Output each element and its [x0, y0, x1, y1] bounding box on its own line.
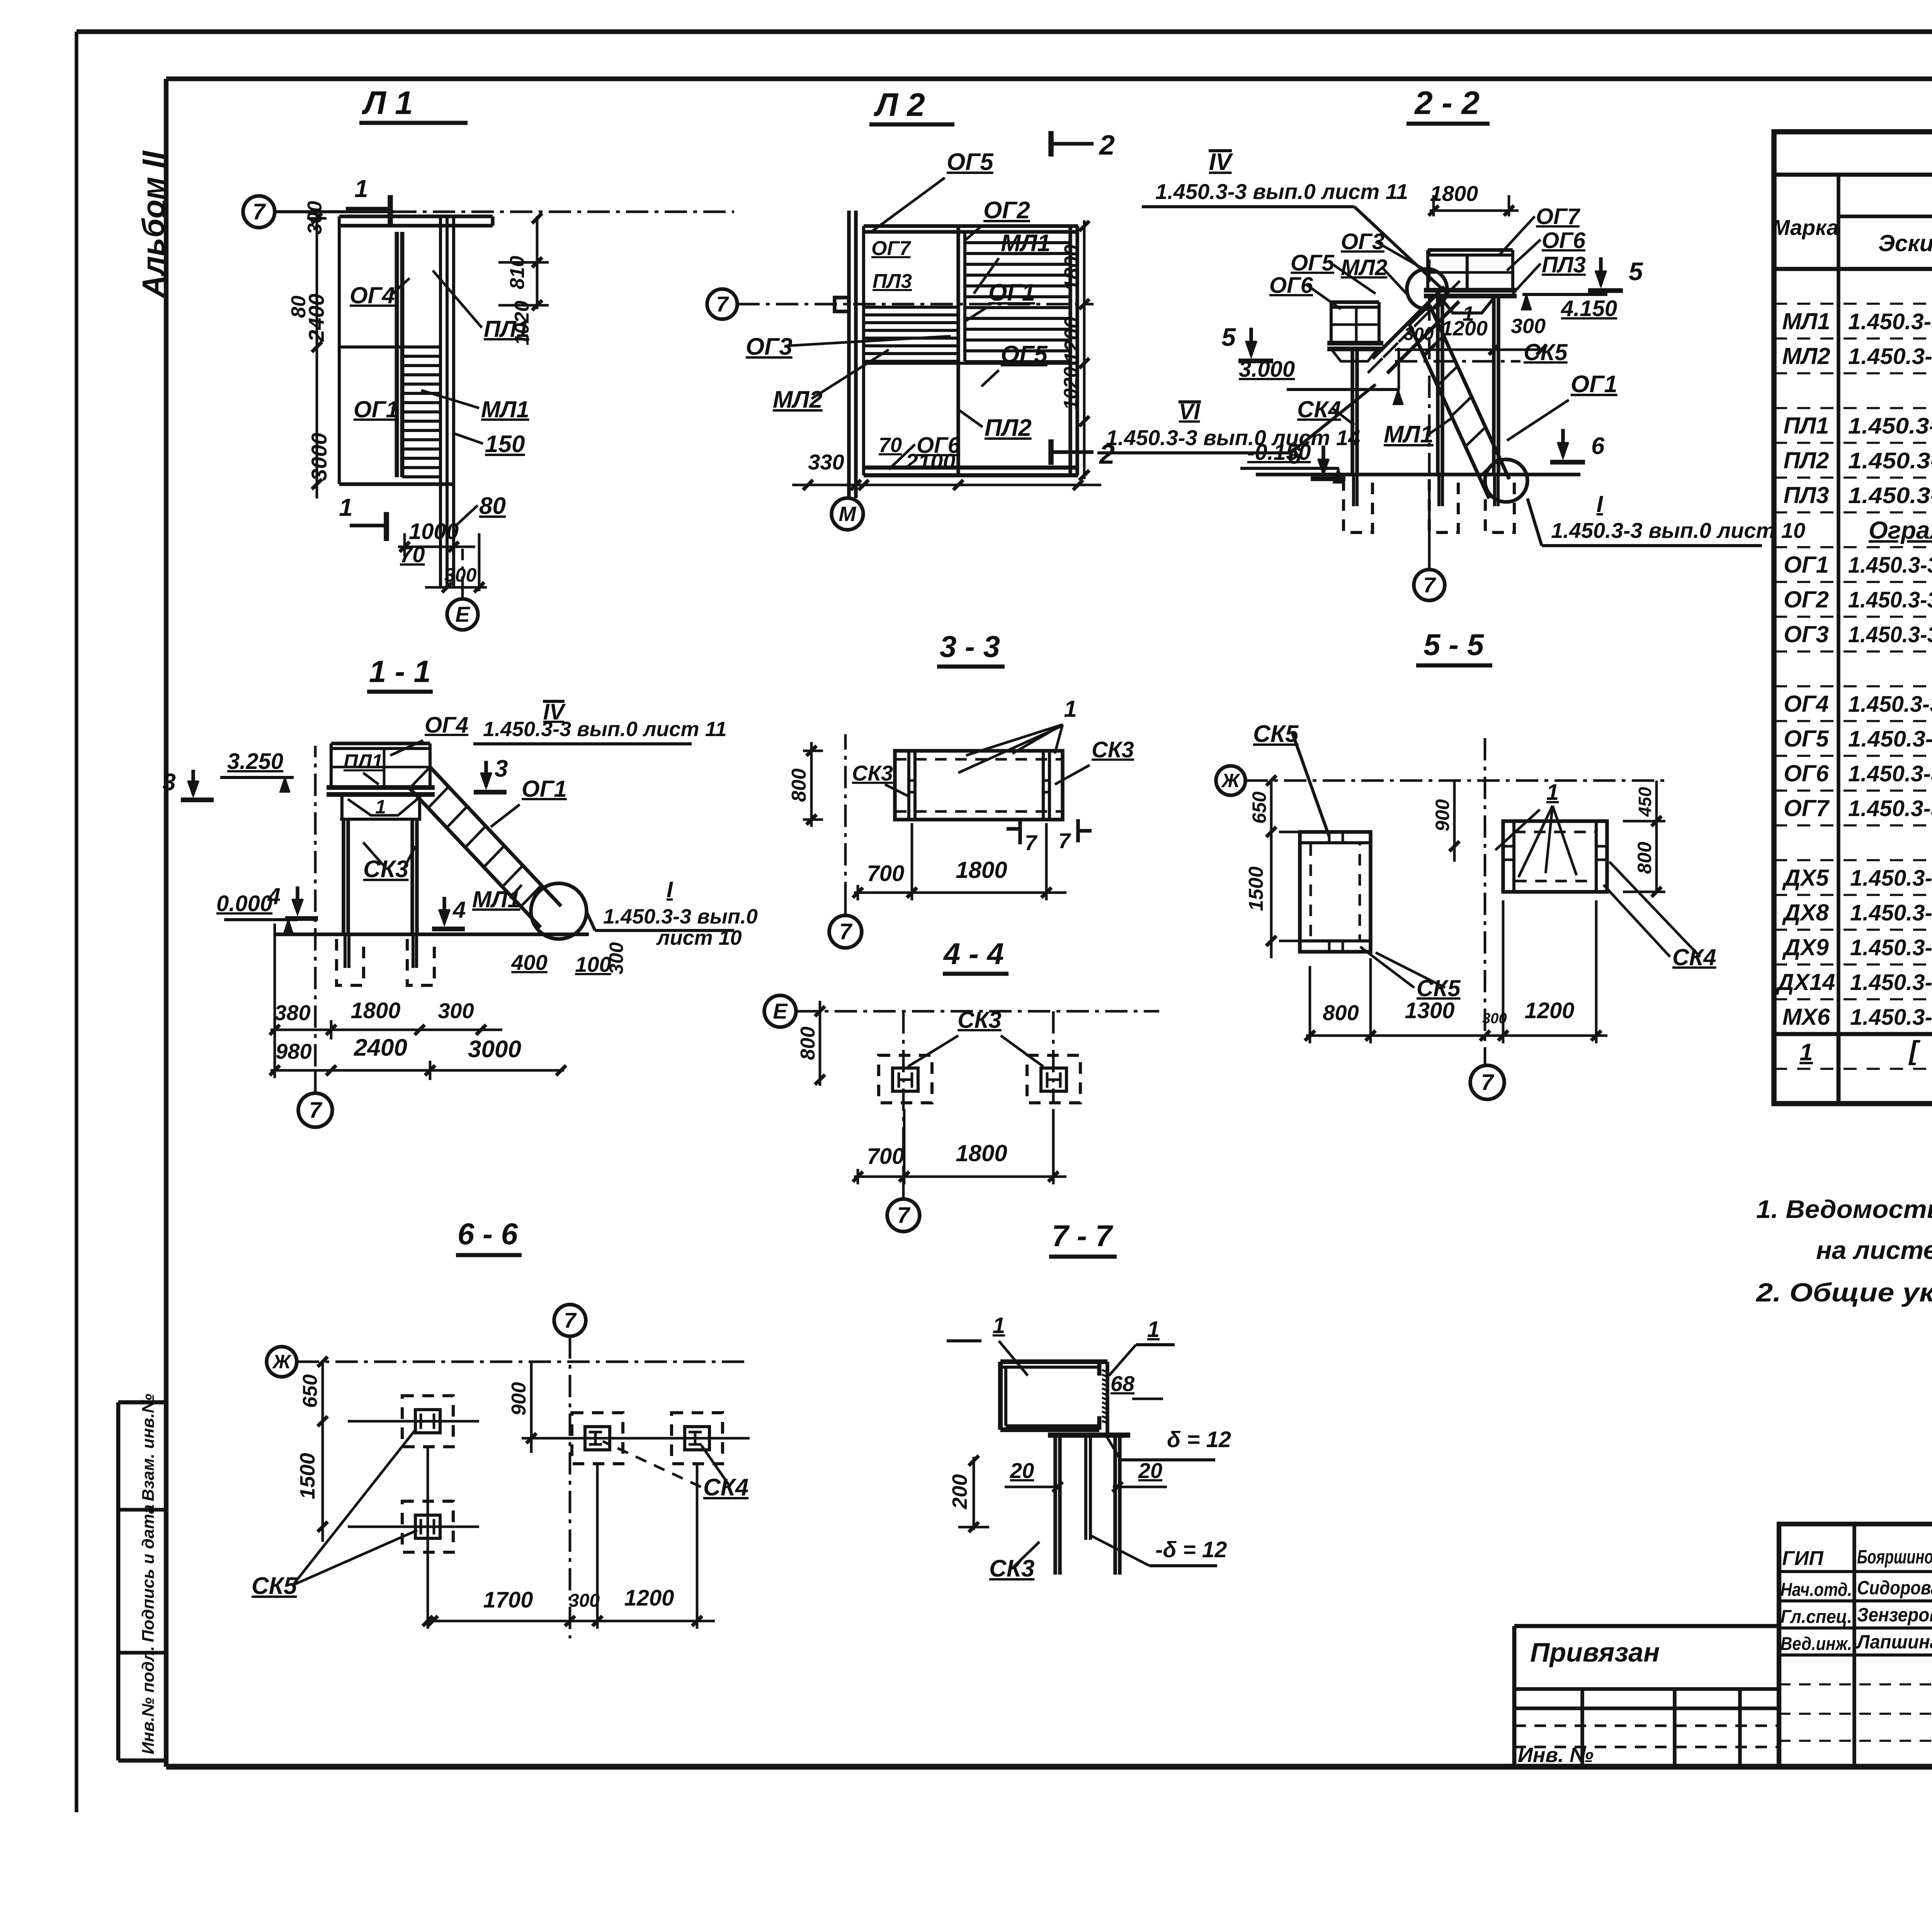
- svg-text:Эскиз: Эскиз: [1878, 230, 1932, 256]
- svg-text:ДХ14: ДХ14: [1775, 969, 1835, 995]
- svg-text:ДХ8: ДХ8: [1782, 900, 1829, 925]
- svg-text:на листе 9.: на листе 9.: [1816, 1236, 1932, 1264]
- svg-text:1.450.3-3 вып. 1ч.2: 1.450.3-3 вып. 1ч.2: [1850, 1005, 1932, 1030]
- svg-text:МЛ1: МЛ1: [1001, 230, 1051, 257]
- svg-text:300: 300: [569, 1590, 600, 1611]
- svg-text:1000: 1000: [409, 519, 459, 544]
- svg-text:ОГ5: ОГ5: [1291, 250, 1335, 276]
- svg-text:ОГ6: ОГ6: [1784, 760, 1829, 786]
- svg-text:МЛ1: МЛ1: [481, 396, 529, 422]
- svg-text:1300: 1300: [1405, 998, 1454, 1023]
- svg-text:150: 150: [485, 431, 525, 458]
- svg-text:ОГ1: ОГ1: [354, 396, 399, 422]
- svg-text:2 - 2: 2 - 2: [1414, 85, 1480, 121]
- svg-text:IV: IV: [1209, 149, 1233, 175]
- svg-text:7 - 7: 7 - 7: [1052, 1219, 1114, 1253]
- svg-text:700: 700: [867, 861, 905, 886]
- svg-text:СК3: СК3: [363, 856, 408, 883]
- svg-text:МЛ1: МЛ1: [1384, 421, 1434, 448]
- svg-text:ОГ3: ОГ3: [746, 333, 793, 360]
- svg-text:7: 7: [1481, 1070, 1495, 1095]
- svg-text:330: 330: [808, 450, 844, 474]
- svg-text:ОГ1: ОГ1: [988, 279, 1035, 306]
- svg-text:300: 300: [1511, 315, 1546, 338]
- svg-text:3.250: 3.250: [227, 749, 283, 774]
- svg-text:1.450.3-3 вып.1ч.2 ОГл МЛХ 45-: 1.450.3-3 вып.1ч.2 ОГл МЛХ 45-10.30 (2шт…: [1848, 553, 1932, 578]
- svg-text:1: 1: [1147, 1317, 1160, 1342]
- svg-text:СК5: СК5: [1417, 975, 1461, 1001]
- svg-text:1.450.3-3 вып.1 ч.2 ПМХШ-24.: 1.450.3-3 вып.1 ч.2 ПМХШ-24.10 (1шт.): [1848, 413, 1932, 439]
- svg-text:Е: Е: [773, 999, 788, 1023]
- svg-text:ОГ7: ОГ7: [1536, 204, 1581, 229]
- svg-text:7: 7: [1025, 830, 1038, 855]
- svg-text:300: 300: [444, 564, 477, 586]
- svg-text:1: 1: [339, 493, 353, 521]
- svg-text:Л 2: Л 2: [873, 87, 925, 123]
- svg-text:МЛ1: МЛ1: [472, 886, 520, 912]
- svg-text:СК4: СК4: [1672, 944, 1716, 970]
- svg-text:ОГ2: ОГ2: [983, 197, 1030, 224]
- svg-text:МЛ2: МЛ2: [773, 386, 823, 413]
- svg-text:ОГ4: ОГ4: [425, 713, 468, 738]
- svg-text:1.450.3-3 вып.1 ч.1 МЛХШ 45-30: 1.450.3-3 вып.1 ч.1 МЛХШ 45-30.10 (2шт.): [1848, 309, 1932, 334]
- svg-text:6: 6: [1591, 433, 1605, 459]
- svg-text:М: М: [839, 502, 857, 526]
- svg-text:Альбом II: Альбом II: [136, 150, 170, 298]
- svg-text:5 - 5: 5 - 5: [1423, 628, 1485, 662]
- svg-text:1.450.3-3 вып.1 ч.2 ОГПМХЭб-: 1.450.3-3 вып.1 ч.2 ОГПМХЭб-10.24 (1шт.): [1848, 692, 1932, 717]
- svg-text:Зензеров: Зензеров: [1857, 1604, 1932, 1626]
- svg-text:МХ6: МХ6: [1782, 1004, 1830, 1030]
- svg-text:1500: 1500: [296, 1453, 319, 1499]
- svg-text:68: 68: [1111, 1371, 1135, 1396]
- svg-text:1800: 1800: [956, 1140, 1007, 1166]
- svg-text:1: 1: [993, 1313, 1005, 1338]
- svg-text:7: 7: [564, 1308, 577, 1332]
- svg-text:ОГ7: ОГ7: [1784, 795, 1830, 821]
- svg-text:1800: 1800: [1430, 181, 1478, 206]
- svg-text:ПЛ3: ПЛ3: [872, 270, 912, 293]
- svg-text:0.000: 0.000: [216, 891, 272, 916]
- svg-text:1800: 1800: [956, 857, 1007, 883]
- svg-text:СК3: СК3: [957, 1007, 1002, 1033]
- svg-text:СК3: СК3: [989, 1555, 1034, 1582]
- svg-text:1.450.3-3 вып. 1ч.2: 1.450.3-3 вып. 1ч.2: [1850, 900, 1932, 925]
- svg-text:6 - 6: 6 - 6: [457, 1217, 518, 1251]
- svg-text:ОГ5: ОГ5: [947, 149, 994, 175]
- svg-text:3: 3: [495, 755, 508, 782]
- svg-text:7: 7: [716, 292, 729, 316]
- svg-text:1500: 1500: [1245, 866, 1267, 911]
- svg-text:2. Общие указания смотрет: 2. Общие указания смотреть на листе 1.: [1755, 1278, 1932, 1307]
- svg-text:1700: 1700: [483, 1587, 533, 1613]
- svg-text:Марка: Марка: [1772, 215, 1839, 240]
- svg-text:4: 4: [452, 897, 466, 923]
- svg-text:ОГ6: ОГ6: [1542, 228, 1586, 253]
- svg-text:1.450.3-3 вып.1ч.2 ОГПМХЭб-1: 1.450.3-3 вып.1ч.2 ОГПМХЭб-10.9 (2шт.): [1848, 726, 1932, 752]
- svg-text:Вед.инж.: Вед.инж.: [1781, 1634, 1852, 1654]
- svg-text:1.450.3-3 вып.1ч.2 ПМХШ-21.1: 1.450.3-3 вып.1ч.2 ПМХШ-21.10 (1шт.): [1848, 448, 1932, 473]
- svg-text:1200: 1200: [1441, 317, 1488, 340]
- svg-text:1.450.3-3 вып.1ч.2 ПМХШ-18.1: 1.450.3-3 вып.1ч.2 ПМХШ-18.10 (1шт.): [1848, 483, 1932, 508]
- svg-text:Ж: Ж: [1221, 770, 1241, 791]
- svg-text:2: 2: [1099, 130, 1115, 161]
- svg-text:7: 7: [309, 1098, 323, 1123]
- svg-text:300: 300: [605, 942, 627, 975]
- svg-text:650: 650: [299, 1374, 321, 1408]
- svg-text:ГИП: ГИП: [1782, 1547, 1824, 1570]
- svg-text:80: 80: [287, 296, 310, 318]
- svg-text:20: 20: [1010, 1458, 1034, 1483]
- svg-text:ПЛ1: ПЛ1: [344, 750, 383, 773]
- svg-text:1: 1: [354, 175, 368, 202]
- svg-text:Инв.№ подл.: Инв.№ подл.: [139, 1646, 158, 1754]
- svg-text:1: 1: [1799, 1039, 1813, 1066]
- svg-text:1.450.3-3 вып.0 лист 11: 1.450.3-3 вып.0 лист 11: [1155, 179, 1408, 204]
- svg-text:900: 900: [508, 1382, 530, 1416]
- svg-text:1200: 1200: [1060, 317, 1083, 363]
- svg-text:МЛ2: МЛ2: [1782, 343, 1830, 369]
- svg-text:1: 1: [375, 796, 386, 818]
- svg-text:2400: 2400: [354, 1034, 407, 1061]
- svg-text:7: 7: [1423, 573, 1436, 597]
- svg-text:810: 810: [506, 256, 529, 289]
- svg-text:1800: 1800: [1060, 245, 1083, 291]
- svg-text:ОГ4: ОГ4: [1784, 691, 1829, 717]
- svg-text:ОГ6: ОГ6: [917, 433, 961, 458]
- svg-text:380: 380: [274, 1000, 310, 1025]
- svg-text:20: 20: [1138, 1458, 1162, 1483]
- svg-text:300: 300: [304, 201, 326, 235]
- svg-text:1.450.3-3 вып.1ч.2 ОГПМХЭб-1: 1.450.3-3 вып.1ч.2 ОГПМХЭб-10.21 (1шт.): [1848, 761, 1932, 786]
- svg-text:1.450.3-3 вып.1ч.2 ОГПМХЭб-1: 1.450.3-3 вып.1ч.2 ОГПМХЭб-10.18 (1шт.): [1848, 796, 1932, 821]
- svg-text:ОГ7: ОГ7: [871, 237, 911, 260]
- svg-text:1.450.3-3 вып.0 лист 11: 1.450.3-3 вып.0 лист 11: [483, 718, 727, 741]
- svg-text:1.450.3-3 вып.1ч.1 МЛХШ 45-12.: 1.450.3-3 вып.1ч.1 МЛХШ 45-12.10 (1шт.): [1848, 344, 1932, 369]
- svg-text:80: 80: [479, 493, 506, 519]
- svg-text:ДХ9: ДХ9: [1782, 934, 1829, 960]
- svg-text:ПЛ1: ПЛ1: [484, 316, 529, 342]
- svg-text:1.450.3-3 вып.0: 1.450.3-3 вып.0: [603, 905, 758, 928]
- svg-text:ОГ5: ОГ5: [1784, 726, 1829, 752]
- svg-text:Взам. инв.№: Взам. инв.№: [139, 1394, 158, 1501]
- svg-text:7: 7: [1058, 828, 1071, 853]
- svg-text:ПЛ1: ПЛ1: [1784, 413, 1829, 439]
- svg-text:1020: 1020: [1060, 367, 1082, 410]
- svg-text:4 - 4: 4 - 4: [943, 937, 1004, 971]
- svg-text:СК5: СК5: [1524, 339, 1568, 365]
- svg-text:4.150: 4.150: [1561, 296, 1617, 321]
- svg-text:200: 200: [948, 1474, 971, 1509]
- svg-text:3 - 3: 3 - 3: [940, 629, 1000, 663]
- svg-text:1200: 1200: [624, 1585, 674, 1611]
- svg-text:СК5: СК5: [252, 1573, 298, 1599]
- svg-text:СК3: СК3: [852, 761, 893, 785]
- svg-text:1 - 1: 1 - 1: [369, 654, 431, 689]
- svg-text:ПЛ3: ПЛ3: [1542, 252, 1586, 277]
- svg-text:70: 70: [879, 434, 902, 457]
- svg-text:ОГ1: ОГ1: [1784, 552, 1829, 578]
- svg-text:МЛ1: МЛ1: [1782, 308, 1830, 334]
- svg-text:Л 1: Л 1: [361, 85, 413, 121]
- svg-text:ОГ2: ОГ2: [1784, 587, 1829, 612]
- svg-text:1. Ведомость элементов на: 1. Ведомость элементов на стойки СК3... …: [1756, 1195, 1932, 1223]
- svg-text:7: 7: [253, 199, 266, 225]
- svg-text:1.450.3-3 вып. 1ч.2: 1.450.3-3 вып. 1ч.2: [1850, 970, 1932, 995]
- svg-text:980: 980: [276, 1039, 311, 1063]
- svg-text:800: 800: [788, 769, 810, 802]
- svg-text:1.450.3-3 вып. 1ч.2: 1.450.3-3 вып. 1ч.2: [1850, 866, 1932, 891]
- svg-text:МЛ2: МЛ2: [1341, 255, 1387, 280]
- svg-text:Бояршинов: Бояршинов: [1857, 1546, 1932, 1568]
- svg-text:δ = 12: δ = 12: [1167, 1427, 1231, 1452]
- svg-text:1: 1: [1546, 780, 1559, 805]
- svg-text:7: 7: [897, 1203, 911, 1228]
- svg-text:СК4: СК4: [703, 1474, 748, 1501]
- svg-text:ПЛ2: ПЛ2: [985, 415, 1032, 441]
- svg-text:Лапшина: Лапшина: [1856, 1631, 1932, 1653]
- svg-text:ДХ5: ДХ5: [1782, 865, 1829, 891]
- svg-text:450: 450: [1635, 787, 1655, 817]
- svg-text:Е: Е: [455, 602, 470, 626]
- svg-text:Ж: Ж: [272, 1351, 292, 1373]
- svg-text:-δ = 12: -δ = 12: [1155, 1537, 1227, 1562]
- svg-text:5: 5: [1629, 257, 1643, 286]
- svg-text:ПЛ2: ПЛ2: [1784, 447, 1829, 473]
- svg-text:1: 1: [1064, 696, 1077, 722]
- svg-text:ОГ3: ОГ3: [1784, 621, 1829, 647]
- svg-text:Подпись и дата: Подпись и дата: [139, 1504, 158, 1642]
- svg-text:800: 800: [1323, 1000, 1359, 1025]
- svg-text:СК3: СК3: [1092, 737, 1134, 762]
- svg-text:700: 700: [867, 1144, 905, 1169]
- svg-text:400: 400: [511, 950, 547, 975]
- svg-text:800: 800: [1634, 842, 1655, 874]
- svg-text:ПЛ3: ПЛ3: [1784, 482, 1829, 508]
- svg-text:3000: 3000: [468, 1036, 521, 1063]
- svg-text:Привязан: Привязан: [1530, 1637, 1660, 1667]
- svg-text:1.450.3-3 вып. 1ч.2: 1.450.3-3 вып. 1ч.2: [1850, 935, 1932, 960]
- svg-text:I: I: [1597, 491, 1604, 517]
- svg-text:ОГ5: ОГ5: [1001, 341, 1048, 368]
- svg-text:Гл.спец.: Гл.спец.: [1781, 1607, 1852, 1627]
- svg-text:3000: 3000: [307, 433, 331, 481]
- svg-text:1200: 1200: [1524, 998, 1574, 1023]
- svg-text:3: 3: [163, 769, 176, 796]
- svg-text:Нач.отд.: Нач.отд.: [1781, 1580, 1852, 1600]
- svg-text:ОГ1: ОГ1: [1571, 371, 1617, 398]
- svg-text:5: 5: [1221, 323, 1236, 351]
- svg-text:300: 300: [438, 998, 474, 1023]
- svg-text:Инв. №: Инв. №: [1518, 1744, 1594, 1767]
- svg-text:4: 4: [267, 883, 281, 909]
- svg-text:650: 650: [1248, 791, 1270, 824]
- svg-text:1.450.3-3 вып.0 лист 10: 1.450.3-3 вып.0 лист 10: [1551, 518, 1805, 543]
- svg-text:800: 800: [797, 1027, 819, 1060]
- svg-text:I: I: [667, 877, 673, 902]
- svg-text:7: 7: [839, 919, 853, 944]
- svg-text:1.450.3-3 вып.1ч.2 ОГп МЛХ 45-: 1.450.3-3 вып.1ч.2 ОГп МЛХ 45-10.30 (1шт…: [1848, 587, 1932, 612]
- svg-text:Ограждения лестничных маршей: Ограждения лестничных маршей: [1869, 516, 1932, 544]
- svg-text:ОГ1: ОГ1: [522, 776, 567, 802]
- svg-text:ОГ4: ОГ4: [350, 282, 395, 308]
- svg-text:900: 900: [1432, 799, 1453, 832]
- svg-text:1800: 1800: [350, 998, 400, 1023]
- svg-text:1.450.3-3 вып.1ч.2 ОГп МЛХ 45-: 1.450.3-3 вып.1ч.2 ОГп МЛХ 45-10.12 (1шт…: [1848, 622, 1932, 647]
- svg-text:Сидорова: Сидорова: [1857, 1577, 1932, 1599]
